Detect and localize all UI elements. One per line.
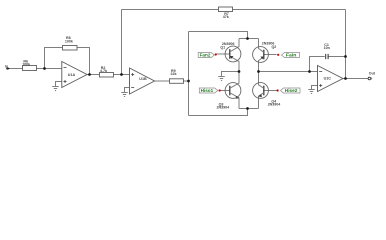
port Out <box>368 71 376 79</box>
svg-text:Fain: Fain <box>286 53 297 58</box>
svg-text:2N3904: 2N3904 <box>217 105 230 109</box>
wire U7B output to R9 to bridge <box>155 80 189 82</box>
node C U7B input junction <box>120 73 123 76</box>
wire right vertical from top rail down to output node <box>345 10 347 79</box>
op-amp U1A <box>62 62 87 88</box>
wire mid-left node to ground <box>222 72 240 77</box>
resistor R8 <box>63 36 78 50</box>
wire feedback R8 loop <box>45 48 90 75</box>
wire C1 feedback branch <box>310 57 346 72</box>
net flag Fan2 <box>198 53 217 58</box>
transistor Q2 <box>253 39 277 72</box>
svg-text:10n: 10n <box>324 46 330 50</box>
ground for U7C plus input <box>308 90 314 94</box>
wire collector join top <box>239 38 259 40</box>
op-amp U1B <box>130 68 155 94</box>
node H mid-right <box>257 70 260 73</box>
port In <box>5 64 10 70</box>
capacitor C1 <box>324 43 330 59</box>
wire emitter join bottom <box>239 108 259 110</box>
node A junction input <box>43 67 46 70</box>
wire U7C output to Out port <box>343 78 368 80</box>
node I C1 branch junction <box>308 70 311 73</box>
svg-text:U1C: U1C <box>324 77 332 81</box>
svg-text:U1B: U1B <box>139 77 147 81</box>
resistor R6 <box>22 60 36 71</box>
svg-text:22k: 22k <box>171 72 177 76</box>
svg-text:Out: Out <box>369 71 376 75</box>
svg-text:100k: 100k <box>65 39 73 43</box>
svg-text:4.7k: 4.7k <box>100 69 107 73</box>
node D bridge left rail junction <box>187 80 190 83</box>
transistor Q1 <box>216 39 241 72</box>
ground for U7B minus input <box>121 93 127 97</box>
wire bridge top <box>189 32 248 39</box>
svg-text:U1A: U1A <box>68 73 76 77</box>
svg-text:Q1: Q1 <box>220 45 225 49</box>
node E collector join <box>246 37 249 40</box>
net flag Hise2 <box>277 88 301 93</box>
resistor R7 <box>219 7 233 19</box>
wire U7B minus stub to ground <box>125 88 130 93</box>
ground bridge mid-left <box>218 77 224 81</box>
net flag Fain <box>277 53 299 58</box>
wire input row <box>9 68 62 70</box>
node J cap to output rail <box>344 55 347 58</box>
ground for U7A plus input <box>52 87 58 91</box>
wire U7A plus stub to ground <box>56 82 62 87</box>
node F emitter join <box>246 107 249 110</box>
node G mid-left <box>238 70 241 73</box>
wire bridge bottom <box>189 109 248 116</box>
resistor R9 <box>170 69 184 83</box>
svg-text:2N3904: 2N3904 <box>268 103 281 107</box>
net flag Hiso1 <box>199 88 220 93</box>
resistor R2 <box>100 66 114 77</box>
svg-text:In: In <box>5 64 8 68</box>
transistor Q4 <box>253 72 281 109</box>
transistor Q3 <box>217 72 241 110</box>
svg-text:Hise2: Hise2 <box>285 88 298 93</box>
svg-text:100k: 100k <box>22 62 30 66</box>
op-amp U1C <box>318 66 343 92</box>
wire U7A output to U7B input <box>87 74 130 76</box>
svg-text:Hiso1: Hiso1 <box>201 88 214 93</box>
svg-text:47k: 47k <box>223 15 229 19</box>
wire top feedback rail <box>122 9 346 11</box>
node B feedback to output <box>88 73 91 76</box>
wire U7C plus stub to ground <box>312 86 318 90</box>
wire bridge left rail <box>188 32 190 116</box>
node K output junction <box>344 77 347 80</box>
svg-text:Q2: Q2 <box>272 45 277 49</box>
wire U7B input junction up to top rail <box>121 10 123 75</box>
wire mid-right node to U7C <box>259 71 318 73</box>
svg-text:Fan2: Fan2 <box>200 53 212 58</box>
